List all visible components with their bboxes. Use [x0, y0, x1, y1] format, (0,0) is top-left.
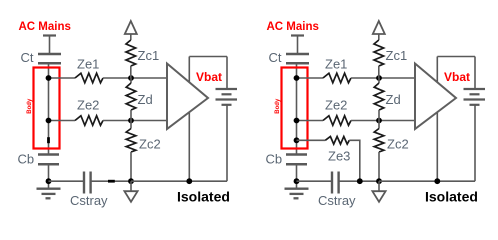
wire ground node to Cstray (right) [297, 180, 333, 182]
capacitor Cstray (left) [84, 172, 91, 194]
Body sense box (left) [34, 68, 60, 149]
resistor Zd (right) [374, 83, 384, 110]
Body sense box (right) [282, 68, 308, 149]
wire Zd to row2 (right) [378, 110, 380, 121]
svg-text:Ze3: Ze3 [328, 149, 350, 164]
resistor Zc1 (right) [374, 40, 384, 66]
svg-text:Vbat: Vbat [196, 70, 222, 84]
node isolated rail junction (left) [128, 178, 134, 184]
wire Zc2 to isolated rail (left) [130, 152, 132, 181]
node row1 junction (left) [128, 75, 134, 81]
wire Zc1 to row1 (right) [378, 66, 380, 78]
wire left rail (left) [48, 63, 50, 154]
resistor Zc2 (right) [374, 129, 384, 153]
wire row1 from body (left) [49, 77, 76, 79]
resistor Zd (left) [126, 83, 136, 110]
node row1 junction (right) [376, 75, 382, 81]
svg-text:Isolated: Isolated [177, 189, 230, 205]
isolated supply arrow top (left) [125, 21, 137, 40]
wire Cb to ground node (left) [48, 164, 50, 181]
svg-text:Zc1: Zc1 [138, 48, 160, 63]
wire isolated bottom rail (left) [131, 180, 227, 182]
svg-text:Zc2: Zc2 [387, 137, 409, 152]
isolated ground arrow (right) [372, 181, 385, 202]
wire Cb to ground node (right) [296, 164, 298, 181]
svg-text:Body: Body [275, 98, 281, 114]
wire ground node to Cstray (left) [49, 180, 85, 182]
wire battery positive lead (right) [474, 57, 476, 90]
op-amp buffer (left) [167, 64, 208, 130]
node Ze3 isolated junction (right) [357, 178, 363, 184]
AC mains terminal stub (left) [43, 36, 56, 55]
wire row1 from body (right) [297, 77, 324, 79]
wire Ze2 to op-amp (left) [103, 120, 168, 122]
node op-amp supply return (left) [186, 178, 192, 184]
node op-amp supply return (right) [434, 178, 440, 184]
earth ground (left) [37, 181, 61, 198]
svg-text:Cb: Cb [266, 152, 283, 167]
wire row2 to Zc2 (left) [130, 121, 132, 129]
svg-text:Ze2: Ze2 [325, 98, 347, 113]
svg-text:Cb: Cb [18, 152, 35, 167]
battery Vbat (left) [216, 89, 238, 105]
wire body to Ze3 (right) [297, 139, 326, 141]
svg-text:Zd: Zd [386, 92, 401, 107]
battery Vbat (right) [464, 89, 486, 105]
capacitor Ct (left) [38, 54, 61, 63]
capacitor Cb (left) [38, 155, 59, 165]
node row2 junction (right) [376, 118, 382, 124]
wire Ze1 to op-amp (right) [351, 77, 416, 79]
svg-text:Zc1: Zc1 [386, 48, 408, 63]
isolated ground arrow (left) [124, 181, 137, 202]
wire Ze3 down to isolated rail (right) [349, 140, 360, 181]
wire row2 to Zc2 (right) [378, 121, 380, 129]
wire row2 from body (right) [297, 120, 324, 122]
node Cb-ground junction (right) [294, 178, 300, 184]
svg-text:Ze1: Ze1 [325, 57, 347, 72]
svg-text:Body: Body [27, 98, 33, 114]
wire Ze2 to op-amp (right) [351, 120, 416, 122]
AC mains terminal stub (right) [291, 36, 304, 55]
resistor Ze2 (right) [323, 116, 351, 126]
wire Vbat box top (left) [189, 56, 227, 58]
wire battery negative lead (left) [226, 105, 228, 181]
wire left rail (right) [296, 63, 298, 154]
svg-text:Ct: Ct [21, 50, 34, 65]
node body row2 (right) [294, 118, 300, 124]
resistor Ze3 (right) [325, 137, 349, 145]
svg-text:AC Mains: AC Mains [267, 21, 319, 33]
resistor Ze1 (left) [75, 73, 103, 83]
node body row1 (left) [46, 75, 52, 81]
svg-text:AC Mains: AC Mains [19, 21, 71, 33]
wire Vbat box top (right) [437, 56, 475, 58]
svg-text:Isolated: Isolated [425, 189, 478, 205]
resistor Ze2 (left) [75, 116, 103, 126]
resistor Zc2 (left) [126, 129, 136, 153]
svg-text:Ze2: Ze2 [77, 98, 99, 113]
svg-text:Vbat: Vbat [444, 70, 470, 84]
op-amp buffer (right) [415, 64, 456, 130]
node row2 junction (left) [128, 118, 134, 124]
svg-text:Ze1: Ze1 [77, 57, 99, 72]
earth ground (right) [285, 181, 309, 198]
svg-text:Cstray: Cstray [70, 193, 108, 208]
svg-text:Ct: Ct [269, 50, 282, 65]
resistor Ze1 (right) [323, 73, 351, 83]
wire Zc2 to isolated rail (right) [378, 152, 380, 181]
capacitor Cb (right) [286, 155, 307, 165]
wire Cstray to isolated node (right) [339, 180, 379, 182]
node body row1 (right) [294, 75, 300, 81]
node isolated rail junction (right) [376, 178, 382, 184]
wire Zd to row2 (left) [130, 110, 132, 121]
resistor Zc1 (left) [126, 40, 136, 66]
capacitor Cstray (right) [332, 172, 339, 194]
wire Vbat negative rail behind op-amp (left) [188, 57, 190, 182]
wire Ze1 to op-amp (left) [103, 77, 168, 79]
wire Vbat negative rail behind op-amp (right) [436, 57, 438, 182]
wire row1 to Zd (right) [378, 78, 380, 83]
wire battery negative lead (right) [474, 105, 476, 181]
node body Ze3 branch (right) [294, 137, 300, 143]
wire battery positive lead (left) [226, 57, 228, 90]
capacitor Ct (right) [286, 54, 309, 63]
isolated supply arrow top (right) [373, 21, 385, 40]
wire row1 to Zd (left) [130, 78, 132, 83]
node Cb-ground junction (left) [46, 178, 52, 184]
svg-text:Zc2: Zc2 [139, 137, 161, 152]
tick mark on Cstray wire (left) [108, 180, 115, 183]
wire Zc1 to row1 (left) [130, 66, 132, 78]
node body row2 (left) [46, 118, 52, 124]
tick mark on rail (left) [47, 137, 50, 143]
svg-text:Cstray: Cstray [318, 193, 356, 208]
wire Cstray to isolated node (left) [91, 180, 131, 182]
wire row2 from body (left) [49, 120, 76, 122]
svg-text:Zd: Zd [138, 92, 153, 107]
wire isolated bottom rail (right) [379, 180, 475, 182]
